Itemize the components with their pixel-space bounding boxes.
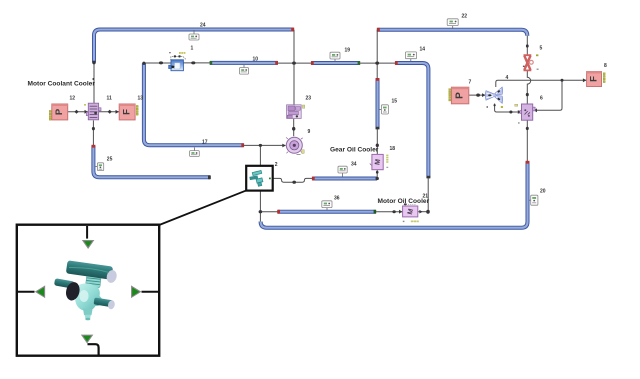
wire pipe17 to pump9 left	[244, 144, 286, 146]
main top cylinder	[66, 260, 118, 284]
dot block6-pipe20	[526, 127, 529, 130]
dot cooler18 top wire	[376, 144, 379, 148]
sensor 25 (right of pipe)	[95, 163, 103, 171]
dot fan3 below	[494, 104, 496, 106]
sensor 22	[447, 19, 458, 29]
svg-text:22: 22	[462, 14, 468, 20]
bottom nozzle	[83, 309, 93, 321]
sensor 19	[330, 52, 340, 61]
arrow out of Motor Oil Cooler	[419, 210, 422, 214]
pipe 34	[312, 177, 377, 181]
svg-text:8: 8	[604, 63, 607, 69]
svg-text:7: 7	[469, 80, 472, 86]
port triangle bottom	[82, 335, 92, 342]
heat exchanger block 11 (Motor Coolant Cooler HX)	[84, 103, 101, 120]
pipe 13 / pipe 17 (vertical + horizontal with corner)	[144, 63, 244, 147]
pipe 14 (horizontal + right vertical down)	[395, 61, 430, 178]
valve body	[75, 283, 102, 311]
svg-text:10: 10	[253, 57, 259, 63]
svg-text:17: 17	[202, 140, 208, 146]
wire line4 junction down and left into block6 right	[534, 80, 563, 110]
diamond P12-HX11	[74, 110, 78, 114]
dot fan3 bottom wire	[509, 111, 512, 114]
neck with ribs	[85, 275, 101, 288]
wire valve box2 bottom down to bottom junction	[259, 191, 261, 222]
wire node x294 vertical: pipe24 end down to pump23	[293, 30, 295, 105]
dot above valve5	[526, 44, 529, 47]
port stub bottom (hooked)	[88, 344, 99, 356]
svg-text:25: 25	[107, 157, 113, 163]
svg-text:20: 20	[540, 189, 546, 195]
sensor 36	[322, 201, 332, 210]
svg-text:23: 23	[306, 96, 312, 102]
node x377 junction	[375, 62, 379, 65]
arrow into fan3	[482, 93, 486, 97]
svg-text:11: 11	[107, 96, 113, 102]
svg-text:P: P	[455, 92, 466, 99]
svg-text:34: 34	[351, 162, 357, 168]
pump block 9 (centrifugal)	[286, 137, 304, 154]
dot on jog wire	[292, 181, 296, 184]
arrow into HX11	[85, 110, 89, 114]
sensor 20 (right of pipe)	[530, 195, 538, 205]
valve block 5 (red X)	[523, 54, 539, 70]
arrow into block6 left	[518, 110, 522, 114]
svg-text:36: 36	[334, 196, 340, 202]
dot P7 wire	[476, 94, 480, 97]
svg-text:Motor Coolant Cooler: Motor Coolant Cooler	[28, 81, 96, 88]
junction tank-right	[191, 61, 195, 64]
pipe 10	[210, 61, 278, 65]
wire Motor Oil Cooler to right junction	[418, 211, 428, 213]
cooler block Motor Oil Cooler	[403, 203, 419, 222]
wire HX11 bottom to pipe25 top	[92, 120, 94, 145]
source block P 7	[449, 87, 469, 104]
sensor 14	[405, 52, 416, 62]
svg-text:14: 14	[420, 47, 426, 53]
pipe 19	[311, 61, 360, 65]
dot between pump23 and pump9	[292, 127, 295, 131]
junction tank-left	[159, 61, 163, 64]
svg-text:12: 12	[70, 96, 76, 102]
dot cooler18 bottom	[376, 171, 379, 174]
callout diagonal line	[159, 190, 246, 225]
source block F 8	[587, 72, 606, 87]
svg-text:18: 18	[390, 146, 396, 152]
wire right junction up to pipe14 bottom	[427, 178, 429, 212]
arrow into pump9	[282, 144, 286, 148]
dark end cap	[64, 281, 81, 302]
three-way junction block 3 (blue fan)	[485, 87, 503, 108]
wire pipe22 corner down to valve5	[526, 36, 528, 55]
port stub right	[142, 291, 159, 293]
wire pipe24-leg to HX11 top	[93, 63, 95, 104]
right small pipe	[94, 297, 116, 310]
sensor 10 (below pipe)	[240, 65, 249, 74]
sensor 15 (right of pipe)	[380, 105, 389, 114]
dot pipe13 top	[142, 62, 145, 65]
left small pipe	[54, 278, 75, 289]
source block F 13	[119, 104, 138, 120]
wire pipe15 to cooler18 top	[376, 129, 378, 154]
wire cooler18 bottom to pipe34 junction	[376, 170, 378, 179]
pipe 22 (top-right horizontal)	[377, 28, 528, 36]
junction pipe17	[259, 144, 262, 147]
dot before Motor Oil Cooler	[392, 210, 395, 213]
svg-text:F: F	[589, 76, 600, 82]
wire bottom junction to pipe36	[260, 211, 277, 213]
arrow into F8	[583, 78, 587, 82]
svg-text:P: P	[54, 108, 65, 115]
port stub top	[86, 226, 88, 239]
tiny mark on wire above HX11	[92, 78, 94, 80]
diamond HX11-F13	[108, 110, 112, 114]
cooler block 18 (Gear Oil Cooler)	[370, 154, 389, 169]
wire fan3 top up to line4 to F8	[496, 80, 587, 87]
wire block6 bottom to pipe20	[526, 120, 528, 161]
pipe 36	[277, 210, 376, 214]
port triangle right	[132, 286, 141, 297]
sensor 17 (below pipe)	[190, 148, 200, 157]
wire pipe19 to pipe14 through junction	[360, 62, 396, 64]
wire node x377: pipe22 start down to junction and pipe15	[376, 30, 378, 79]
arrow into F13	[116, 110, 120, 114]
pipe 15 (vertical)	[376, 78, 380, 129]
svg-text:F: F	[122, 109, 133, 115]
wire junction down into valve box2 top	[259, 145, 261, 165]
svg-text:15: 15	[392, 99, 398, 105]
pipe 20 + bottom return loop	[261, 161, 530, 228]
svg-text:5: 5	[540, 46, 543, 52]
dot valve5-block6	[526, 93, 529, 96]
svg-text:13: 13	[138, 96, 144, 102]
junction right of Motor Oil Cooler	[426, 210, 430, 214]
highlighted valve box 2	[246, 166, 273, 191]
port stub left	[18, 291, 35, 293]
wire valve box2 right jog to pipe34	[273, 178, 313, 182]
wire pipe10 to pipe19 through junction	[278, 62, 312, 64]
source block P 12	[49, 104, 67, 120]
mixer block 6	[515, 104, 535, 124]
wire pump23 to pump9	[293, 119, 295, 136]
svg-text:6: 6	[540, 96, 543, 102]
wire HX11 to F13	[99, 111, 119, 113]
svg-text:24: 24	[200, 23, 206, 29]
junction line4	[561, 79, 564, 82]
sensor 34	[338, 166, 347, 177]
junction pipe34 right end	[376, 177, 379, 180]
svg-text:1: 1	[191, 46, 194, 52]
svg-text:19: 19	[345, 48, 351, 54]
dot pipe24 leg bottom	[92, 61, 95, 65]
inset box frame	[17, 225, 159, 356]
port triangle top	[83, 241, 93, 248]
arrow into Motor Oil Cooler	[399, 210, 403, 214]
port triangle left	[36, 286, 45, 297]
wire pipe13 top to tank left	[144, 62, 171, 64]
tank block 1	[169, 52, 186, 71]
svg-text:21: 21	[423, 194, 429, 200]
wire pipe36 to Motor Oil Cooler	[376, 211, 403, 213]
pipe 25 (left vertical + bottom horizontal to valve)	[92, 145, 211, 179]
junction bottom-left	[259, 210, 263, 213]
wire P7 to fan3	[469, 94, 486, 96]
wire tank right to pipe10	[184, 62, 211, 64]
svg-text:9: 9	[308, 129, 311, 135]
svg-text:4: 4	[506, 75, 509, 81]
pipe 24 (top-left horizontal + left vertical leg)	[94, 28, 294, 63]
wire valve5 bottom to block6 top with hop over line4	[527, 71, 530, 104]
dot HX11 lower wire	[92, 127, 95, 130]
node x294 junction	[292, 62, 296, 65]
svg-text:Gear Oil Cooler: Gear Oil Cooler	[330, 147, 379, 154]
pump block 23	[287, 105, 305, 119]
svg-text:2: 2	[275, 162, 278, 168]
3D valve icon	[54, 260, 118, 320]
sensor 24	[189, 30, 199, 40]
wire fan3 bottom to block6 left	[495, 104, 522, 113]
wire P12 to HX11	[68, 111, 88, 113]
arrow into block6 right	[534, 108, 538, 112]
